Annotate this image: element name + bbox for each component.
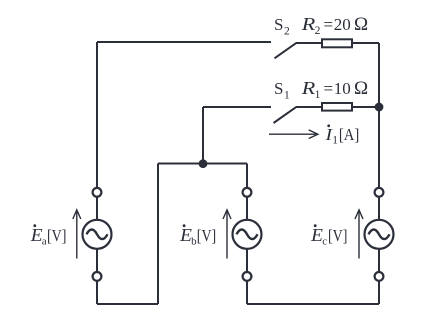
svg-text:1: 1 <box>332 134 338 146</box>
svg-text:[A]: [A] <box>339 125 359 144</box>
svg-text:Ω: Ω <box>354 78 368 99</box>
svg-text:1: 1 <box>284 89 290 101</box>
svg-text:20: 20 <box>334 15 351 34</box>
svg-text:c: c <box>322 235 327 247</box>
svg-text:=: = <box>324 15 334 34</box>
svg-text:[V]: [V] <box>47 226 66 245</box>
svg-text:R: R <box>301 78 316 98</box>
svg-text:a: a <box>42 235 47 247</box>
svg-text:2: 2 <box>284 25 290 37</box>
svg-text:=: = <box>324 79 334 98</box>
svg-text:S: S <box>274 79 283 98</box>
svg-text:2: 2 <box>315 25 321 37</box>
svg-text:[V]: [V] <box>328 226 347 245</box>
svg-text:Ω: Ω <box>354 14 368 35</box>
svg-text:S: S <box>274 15 283 34</box>
svg-text:[V]: [V] <box>197 226 216 245</box>
svg-text:10: 10 <box>334 79 351 98</box>
svg-text:R: R <box>301 14 316 34</box>
svg-text:1: 1 <box>315 89 321 101</box>
